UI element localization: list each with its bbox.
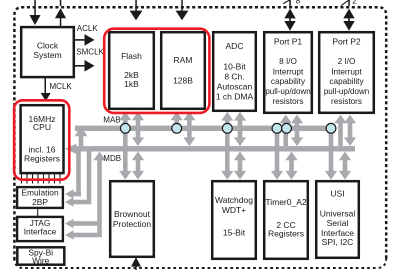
Port P2 box <box>319 32 374 113</box>
USI MDB wire <box>339 152 351 180</box>
svg-text:pull-up/down: pull-up/down <box>324 87 369 96</box>
Flash top arrow <box>130 0 143 20</box>
svg-text:SMCLK: SMCLK <box>76 48 104 57</box>
svg-text:Flash: Flash <box>121 51 142 61</box>
Flash box <box>109 32 154 109</box>
Port P2 right stub wire <box>344 115 356 147</box>
node junction PortP2/MAB end <box>326 123 336 133</box>
svg-text:Port P1: Port P1 <box>274 37 303 47</box>
CPU box <box>21 105 64 173</box>
Brownout supply arrow <box>131 257 141 270</box>
Timer0 MDB wire <box>285 152 297 180</box>
node junction Flash/MAB <box>120 123 130 133</box>
ACLK arrow <box>75 34 95 46</box>
Brownout box <box>110 181 154 257</box>
svg-text:Autoscan: Autoscan <box>217 82 253 92</box>
svg-text:capability: capability <box>271 77 306 86</box>
wire Emulation-JTAG <box>37 209 39 217</box>
svg-text:1kB: 1kB <box>124 79 139 89</box>
svg-text:2: 2 <box>352 0 357 5</box>
ADC box <box>213 32 256 111</box>
Port P2 pin count slash <box>341 0 349 6</box>
MDB bus <box>65 144 355 154</box>
svg-text:resistors: resistors <box>273 97 304 106</box>
svg-text:MAB: MAB <box>103 115 120 124</box>
node junction PortP1/MAB left <box>272 123 282 133</box>
Port P2 pin arrow <box>343 0 354 31</box>
Emulation feed wire 2 <box>65 152 91 207</box>
svg-text:10-Bit: 10-Bit <box>223 62 246 72</box>
node junction RAM/MAB <box>172 123 182 133</box>
svg-text:pull-up/down: pull-up/down <box>265 87 310 96</box>
Timer0_A2 box <box>264 181 308 259</box>
JTAG box <box>17 217 63 241</box>
Port P1 left stub wire <box>280 115 292 147</box>
Spy-Bi Wire box <box>17 247 64 265</box>
RAM box <box>161 32 205 109</box>
MCLK arrow <box>41 78 51 101</box>
svg-text:capability: capability <box>329 77 364 86</box>
Port P1 pin count slash <box>283 0 290 4</box>
svg-text:Interface: Interface <box>24 227 57 237</box>
svg-text:Universal: Universal <box>320 209 356 219</box>
clock input arrow (top border) <box>29 0 40 25</box>
svg-text:USI: USI <box>330 189 344 199</box>
Flash/RAM red highlight ring <box>104 29 209 113</box>
svg-text:Wire: Wire <box>32 255 50 265</box>
svg-text:Serial: Serial <box>327 218 349 228</box>
Flash column left wire <box>119 112 131 180</box>
Emulation feed wire 1 <box>65 152 81 199</box>
Port P2 junction drop wire to USI <box>325 131 337 180</box>
Port P1 box <box>264 32 312 113</box>
svg-text:1 ch DMA: 1 ch DMA <box>216 91 254 101</box>
SMCLK arrow <box>75 60 95 72</box>
svg-text:RAM: RAM <box>174 55 193 65</box>
Port P1 junction drop wire <box>271 131 283 180</box>
svg-text:CPU: CPU <box>33 122 51 132</box>
svg-text:SPI, I2C: SPI, I2C <box>322 237 354 247</box>
svg-text:8 Ch.: 8 Ch. <box>224 71 244 81</box>
svg-text:MCLK: MCLK <box>50 82 73 91</box>
svg-text:15-Bit: 15-Bit <box>223 228 246 238</box>
svg-text:Interrupt: Interrupt <box>273 68 304 77</box>
svg-text:System: System <box>33 50 61 60</box>
svg-text:Registers: Registers <box>24 153 60 163</box>
Emulation box <box>17 187 63 208</box>
svg-text:ACLK: ACLK <box>77 24 99 33</box>
node junction ADC/MAB <box>222 123 232 133</box>
Clock System box <box>21 27 74 77</box>
RAM column right wire <box>183 112 195 147</box>
ADC column right wire <box>234 112 246 180</box>
svg-text:Brownout: Brownout <box>114 209 151 219</box>
svg-text:Port P2: Port P2 <box>332 37 361 47</box>
svg-text:Timer0_A2: Timer0_A2 <box>265 197 307 207</box>
svg-text:8: 8 <box>296 0 301 5</box>
svg-text:Watchdog: Watchdog <box>215 195 253 205</box>
ADC column left wire <box>221 112 233 180</box>
svg-text:WDT+: WDT+ <box>222 205 246 215</box>
svg-text:2BP: 2BP <box>32 197 48 207</box>
clock output arrow (to border) <box>55 0 66 26</box>
svg-text:8 I/O: 8 I/O <box>279 57 297 66</box>
JTAG feed wire <box>65 152 106 240</box>
svg-text:128B: 128B <box>173 75 193 85</box>
emulation bus ticks <box>22 173 61 184</box>
Port P2 left stub wire <box>334 115 346 147</box>
CPU riser wire <box>75 126 88 147</box>
RAM top arrow <box>176 0 189 20</box>
svg-text:Interrupt: Interrupt <box>331 68 362 77</box>
Flash column right wire <box>132 112 144 180</box>
svg-text:Protection: Protection <box>113 219 152 229</box>
MAB bus <box>75 126 331 131</box>
Watchdog box <box>212 181 256 259</box>
node junction PortP1/MAB right <box>282 123 292 133</box>
USI box <box>316 181 359 258</box>
svg-text:Registers: Registers <box>268 228 304 238</box>
Port P1 right stub wire <box>291 115 303 147</box>
svg-text:2 I/O: 2 I/O <box>338 57 356 66</box>
svg-text:ADC: ADC <box>226 41 244 51</box>
svg-text:MDB: MDB <box>103 154 121 163</box>
svg-text:resistors: resistors <box>331 97 362 106</box>
CPU red highlight ring <box>14 100 69 179</box>
Port P1 pin arrow <box>284 0 295 31</box>
RAM column left wire <box>171 112 183 129</box>
